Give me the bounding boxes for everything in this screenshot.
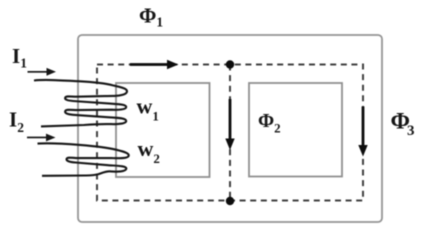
node bottom junction dot [226, 197, 234, 205]
right window [249, 83, 342, 177]
current I1 arrow [28, 68, 57, 76]
flux arrow right (phi3 direction) [358, 107, 367, 157]
winding w1 coil [34, 80, 127, 126]
svg-text:w2: w2 [138, 136, 160, 166]
svg-text:w1: w1 [137, 94, 159, 124]
svg-text:Φ2: Φ2 [258, 111, 281, 136]
svg-text:I1: I1 [12, 44, 27, 71]
svg-text:Φ1: Φ1 [139, 4, 163, 30]
node top junction dot [226, 60, 234, 68]
flux arrow top (phi1 direction) [130, 60, 179, 69]
flux arrow center (phi2 direction) [225, 99, 234, 150]
svg-text:I2: I2 [9, 108, 24, 136]
core outer boundary [78, 35, 382, 222]
flux path center dashed leg [229, 65, 231, 201]
winding w2 coil [38, 143, 129, 176]
current I2 arrow [27, 134, 56, 142]
flux path dashed loop [97, 65, 363, 201]
left window [116, 83, 210, 177]
svg-text:Φ3: Φ3 [391, 109, 415, 139]
